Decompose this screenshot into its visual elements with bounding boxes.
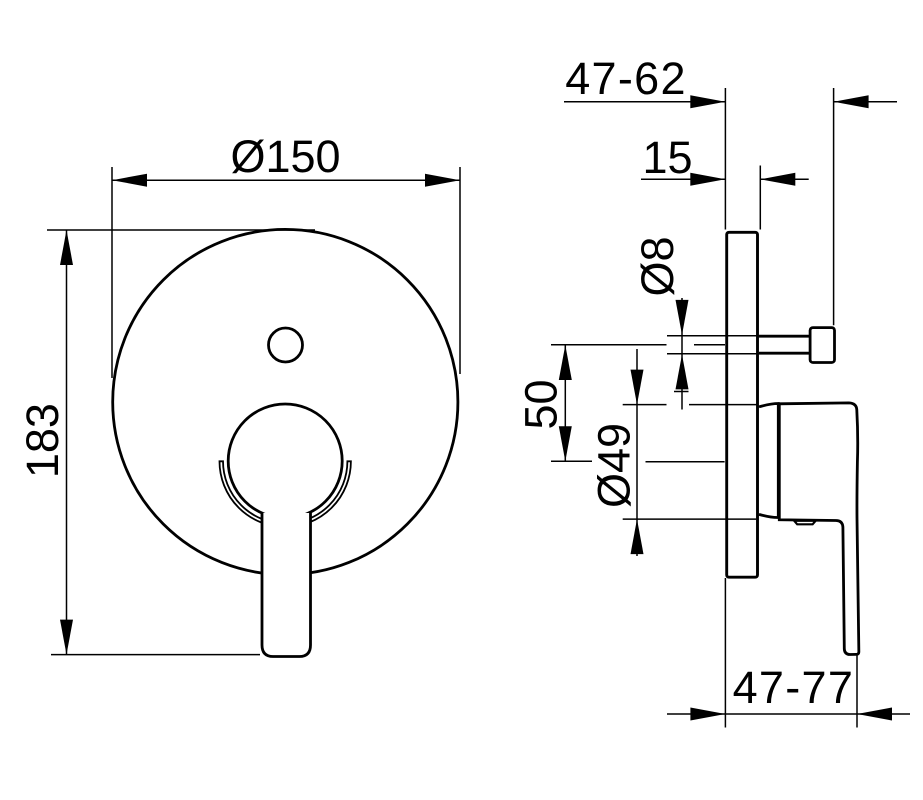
rod centerline right segment — [694, 344, 725, 346]
svg-text:183: 183 — [17, 403, 68, 478]
SIDE VIEW — [727, 232, 758, 577]
dim Ø49 arrow bottom — [631, 519, 644, 554]
lever (front view) — [262, 513, 311, 657]
handle hub circle — [228, 404, 342, 518]
svg-text:47-77: 47-77 — [733, 662, 855, 713]
dim Ø49 arrow top — [631, 370, 644, 405]
dim Ø150 arrow left — [112, 174, 147, 187]
ext line plate front face top — [724, 88, 726, 230]
dim 47-77 line — [667, 713, 910, 715]
dim 15 arrow right — [760, 173, 795, 186]
rod top ext line — [667, 335, 759, 337]
dim Ø8 arrow top — [676, 300, 689, 335]
diverter knob — [810, 328, 834, 363]
dim 50 bottom tick — [551, 460, 592, 462]
dim Ø150 line — [112, 179, 460, 181]
wall plate (side view) — [727, 232, 758, 577]
dim Ø49 top tick left segment — [623, 404, 667, 406]
dim Ø8 arrow bottom — [676, 354, 689, 389]
rod centerline left segment / dim 50 top ref — [551, 344, 667, 346]
svg-text:Ø150: Ø150 — [230, 131, 340, 182]
diverter button — [269, 328, 303, 362]
escutcheon plate circle (front view, Ø150) — [113, 229, 458, 574]
svg-text:47-62: 47-62 — [565, 53, 687, 104]
dim Ø49 line — [636, 349, 638, 556]
dim 47-62 line right segment — [834, 101, 897, 103]
svg-text:Ø49: Ø49 — [589, 423, 640, 508]
dim 15 line right segment — [760, 178, 808, 180]
dim 47-62 arrow at knob — [834, 95, 869, 108]
cartridge boss (side view) — [759, 404, 778, 518]
dim 183 top ref line — [47, 229, 315, 231]
dim 47-77 arrow right — [857, 708, 892, 721]
dim Ø8 line — [681, 298, 683, 410]
dim 50 line — [564, 345, 566, 461]
svg-text:Ø8: Ø8 — [632, 236, 683, 296]
dim 183 bottom ref line — [51, 654, 260, 656]
dim 50 arrow bottom — [559, 426, 572, 461]
dim Ø8 end tick — [674, 391, 689, 393]
dim 183 arrow bottom — [60, 620, 73, 655]
ext line plate back face — [759, 166, 761, 230]
dim 47-62 arrow at plate — [690, 95, 725, 108]
dim 15 arrow left — [690, 173, 725, 186]
dim 183 arrow top — [60, 230, 73, 265]
handle grip and lever arm (side view) — [779, 403, 859, 655]
dim Ø150 ext line right — [459, 167, 461, 374]
dim 50 arrow top — [559, 345, 572, 380]
dim 15 line left segment — [641, 178, 725, 180]
rod bottom ext line — [667, 353, 759, 355]
dim Ø150 arrow right — [425, 174, 460, 187]
ext line knob back face — [833, 88, 835, 325]
ext line lever tip — [856, 655, 858, 728]
dim 47-62 line left segment — [564, 101, 725, 103]
dim Ø49 bottom tick — [623, 518, 756, 520]
dim 183 line — [66, 230, 68, 655]
set screw notch under grip — [794, 521, 815, 525]
recess arc (double line with end caps) — [220, 461, 351, 527]
dim Ø150 ext line left — [111, 167, 113, 378]
dim Ø49 top tick right segment — [689, 404, 758, 406]
svg-text:15: 15 — [642, 132, 692, 183]
diverter rod bottom line — [759, 352, 813, 355]
cartridge centerline ref — [646, 461, 725, 463]
dim 47-77 arrow left — [690, 708, 725, 721]
svg-text:50: 50 — [516, 379, 567, 429]
ext line plate front face bottom — [724, 578, 726, 728]
diverter rod top line — [759, 335, 813, 338]
